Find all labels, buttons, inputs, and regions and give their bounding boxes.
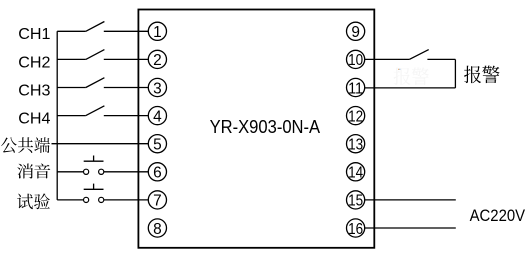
ghost watermark 报警 bbox=[394, 67, 429, 85]
wire bus to switch S4 bbox=[57, 115, 86, 117]
svg-text:AC220V: AC220V bbox=[470, 206, 526, 225]
svg-text:YR-X903-0N-A: YR-X903-0N-A bbox=[210, 117, 321, 137]
switch S4 contact blade (CH4 input) bbox=[86, 106, 105, 116]
svg-text:1: 1 bbox=[153, 24, 162, 41]
svg-text:13: 13 bbox=[348, 137, 363, 154]
wire pin 10 to alarm switch K1 bbox=[364, 58, 409, 60]
wire switch S2 to pin 2 bbox=[104, 58, 149, 60]
wire alarm bracket vertical bbox=[454, 59, 456, 88]
svg-text:CH2: CH2 bbox=[18, 54, 50, 71]
svg-text:8: 8 bbox=[153, 221, 162, 238]
wire switch S3 to pin 3 bbox=[104, 87, 149, 89]
pin 5 terminal bbox=[148, 135, 166, 154]
svg-text:7: 7 bbox=[153, 193, 162, 210]
pin 6 terminal bbox=[148, 163, 166, 182]
label 试验 (test) bbox=[17, 193, 50, 209]
pin 10 terminal bbox=[347, 50, 365, 69]
svg-text:CH4: CH4 bbox=[18, 111, 50, 128]
wire switch S1 to pin 1 bbox=[104, 30, 149, 32]
svg-text:11: 11 bbox=[348, 80, 363, 97]
switch S2 contact blade (CH2 input) bbox=[86, 50, 105, 60]
switch S3 contact blade (CH3 input) bbox=[86, 78, 105, 88]
wire bus to switch S2 bbox=[57, 58, 86, 60]
wire bus to switch S3 bbox=[57, 87, 86, 89]
wire alarm switch to bracket bbox=[427, 58, 455, 60]
common bus wire (vertical) bbox=[56, 31, 58, 200]
pin 8 terminal bbox=[148, 219, 166, 238]
pushbutton mute SB1 bbox=[57, 156, 149, 175]
pin 1 terminal bbox=[148, 22, 166, 41]
svg-text:10: 10 bbox=[348, 52, 363, 69]
wire pin 11 to bracket bbox=[364, 87, 456, 89]
pin 4 terminal bbox=[148, 107, 166, 126]
wire pin 15 AC supply bbox=[364, 199, 456, 201]
svg-text:6: 6 bbox=[153, 165, 162, 182]
pin 12 terminal bbox=[347, 107, 365, 126]
wire pin 16 AC supply bbox=[364, 227, 456, 229]
pin 3 terminal bbox=[148, 78, 166, 97]
svg-text:CH1: CH1 bbox=[18, 26, 50, 43]
svg-text:14: 14 bbox=[348, 165, 363, 182]
label 报警 (alarm) bbox=[464, 66, 499, 84]
wire switch S4 to pin 4 bbox=[104, 115, 149, 117]
pin 15 terminal bbox=[347, 191, 365, 210]
svg-text:9: 9 bbox=[351, 24, 360, 41]
label 消音 (mute) bbox=[17, 163, 50, 178]
alarm switch K1 contact blade bbox=[409, 50, 428, 60]
pin 13 terminal bbox=[347, 135, 365, 154]
pin 11 terminal bbox=[347, 78, 365, 97]
svg-text:12: 12 bbox=[348, 108, 363, 125]
pin 14 terminal bbox=[347, 163, 365, 182]
relay module enclosure U1 bbox=[138, 10, 374, 248]
svg-text:3: 3 bbox=[153, 80, 162, 97]
svg-text:16: 16 bbox=[348, 221, 363, 238]
pin 16 terminal bbox=[347, 219, 365, 238]
pushbutton test SB2 bbox=[57, 184, 149, 203]
svg-text:4: 4 bbox=[153, 108, 162, 125]
artifact dot bbox=[398, 69, 399, 70]
wire bus to switch S1 bbox=[57, 30, 86, 32]
pin 2 terminal bbox=[148, 50, 166, 69]
svg-text:5: 5 bbox=[153, 137, 162, 154]
switch S1 contact blade (CH1 input) bbox=[86, 22, 105, 32]
svg-text:15: 15 bbox=[348, 193, 363, 210]
label 公共端 (common terminal) bbox=[1, 137, 50, 153]
svg-text:2: 2 bbox=[153, 52, 162, 69]
svg-text:CH3: CH3 bbox=[18, 82, 50, 99]
wire 公共端 to pin 5 bbox=[52, 143, 150, 145]
pin 9 terminal bbox=[347, 22, 365, 41]
pin 7 terminal bbox=[148, 191, 166, 210]
